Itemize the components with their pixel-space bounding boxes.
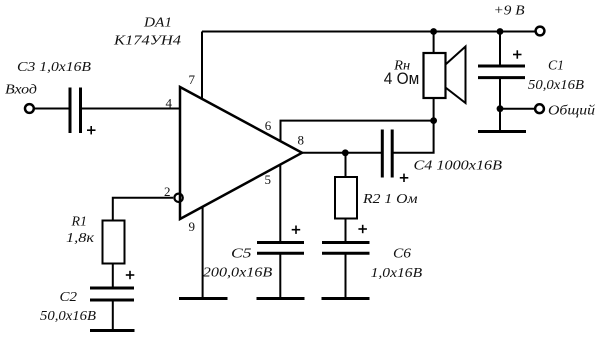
node pin6/C4 — [430, 117, 437, 124]
svg-text:R2 1 Ом: R2 1 Ом — [362, 192, 418, 207]
wire C5 to ground — [279, 253, 281, 298]
wire pin 7 riser — [201, 32, 203, 100]
wire C1 bottom to ground — [499, 78, 501, 132]
capacitor C6 plates — [322, 243, 370, 254]
terminal Vhod — [25, 104, 34, 113]
wire C6 to ground — [345, 253, 347, 298]
capacitor C2 plates — [90, 288, 134, 300]
wire pin 5 to C5 — [279, 165, 281, 243]
node output/R2 — [342, 149, 349, 156]
wire top supply rail — [202, 31, 536, 33]
capacitor C3 plates — [70, 88, 81, 134]
ground C1 — [478, 130, 526, 133]
svg-text:C2: C2 — [60, 290, 78, 305]
terminal +9V — [536, 27, 545, 36]
wire speaker bottom to C4 — [392, 98, 433, 153]
plus C3 — [87, 126, 96, 134]
svg-text:C3 1,0х16В: C3 1,0х16В — [17, 60, 91, 75]
svg-text:R1: R1 — [71, 215, 87, 230]
speaker Rn rectangle — [424, 53, 446, 98]
wire pin 9 to ground — [202, 207, 204, 299]
svg-text:9: 9 — [189, 219, 196, 234]
svg-text:200,0х16В: 200,0х16В — [203, 266, 273, 281]
svg-text:5: 5 — [265, 172, 272, 187]
svg-text:7: 7 — [189, 72, 196, 87]
svg-text:Общий: Общий — [548, 104, 595, 119]
plus C4 — [400, 174, 409, 182]
ground pin 9 — [179, 297, 228, 300]
svg-text:2: 2 — [164, 184, 171, 199]
wire pin 2 to R1 — [113, 198, 173, 221]
node speaker top — [430, 28, 437, 35]
svg-text:1,0х16В: 1,0х16В — [371, 266, 423, 281]
svg-text:К174УН4: К174УН4 — [113, 34, 181, 49]
ground C5 — [257, 297, 305, 300]
svg-text:Вход: Вход — [5, 83, 37, 98]
svg-text:C1: C1 — [548, 59, 564, 74]
wire C1 top — [499, 32, 501, 67]
svg-text:50,0х16В: 50,0х16В — [40, 309, 96, 324]
wire R1 to C2 — [112, 263, 114, 288]
resistor R1 — [103, 221, 125, 264]
capacitor C1 plates — [478, 66, 525, 78]
svg-text:4 Ом: 4 Ом — [384, 69, 420, 88]
pin 2 inversion bubble — [174, 194, 182, 202]
plus C6 — [358, 225, 367, 233]
svg-text:+9 В: +9 В — [494, 4, 525, 19]
capacitor C5 plates — [257, 243, 304, 254]
speaker Rn cone — [446, 47, 466, 104]
plus C2 — [126, 271, 135, 279]
wire output node to R2 — [345, 153, 347, 177]
wire C3 to pin 4 — [81, 108, 181, 110]
svg-text:1,8к: 1,8к — [66, 231, 95, 246]
plus C1 — [513, 50, 522, 58]
wire speaker top — [433, 32, 435, 54]
svg-text:C4 1000х16В: C4 1000х16В — [414, 159, 503, 174]
ground C2 — [90, 329, 135, 332]
wire pin 6 to speaker/C4 node — [281, 121, 434, 142]
svg-text:8: 8 — [298, 133, 305, 148]
resistor R2 — [335, 177, 357, 219]
node C1 top — [497, 28, 504, 35]
wire pin 8 output to C4 — [301, 152, 382, 154]
wire R2 to C6 — [345, 219, 347, 243]
capacitor C4 plates — [382, 130, 392, 178]
wire C2 to ground — [112, 300, 114, 331]
svg-text:6: 6 — [265, 118, 272, 133]
op-amp DA1 triangle — [180, 87, 302, 219]
wire input terminal to C3 — [33, 108, 70, 110]
svg-text:C6: C6 — [393, 247, 411, 262]
svg-text:50,0х16В: 50,0х16В — [528, 78, 584, 93]
ground C6 — [322, 297, 370, 300]
svg-text:C5: C5 — [231, 247, 252, 262]
wire common terminal — [500, 108, 535, 110]
terminal Obshchiy — [535, 104, 544, 113]
svg-text:DA1: DA1 — [143, 16, 172, 31]
svg-text:4: 4 — [166, 96, 173, 111]
node C1 bottom/common — [497, 105, 504, 112]
plus C5 — [292, 226, 301, 234]
